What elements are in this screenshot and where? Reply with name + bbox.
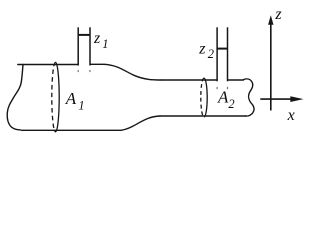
svg-text:z: z: [198, 40, 206, 57]
svg-text:1: 1: [78, 99, 84, 113]
svg-text:2: 2: [228, 97, 234, 111]
svg-text:z: z: [274, 6, 282, 23]
svg-text:x: x: [287, 107, 295, 124]
svg-text:z: z: [93, 30, 101, 47]
svg-text:2: 2: [208, 47, 214, 61]
svg-text:1: 1: [102, 37, 108, 51]
svg-text:A: A: [217, 88, 229, 107]
svg-text:A: A: [65, 89, 77, 108]
